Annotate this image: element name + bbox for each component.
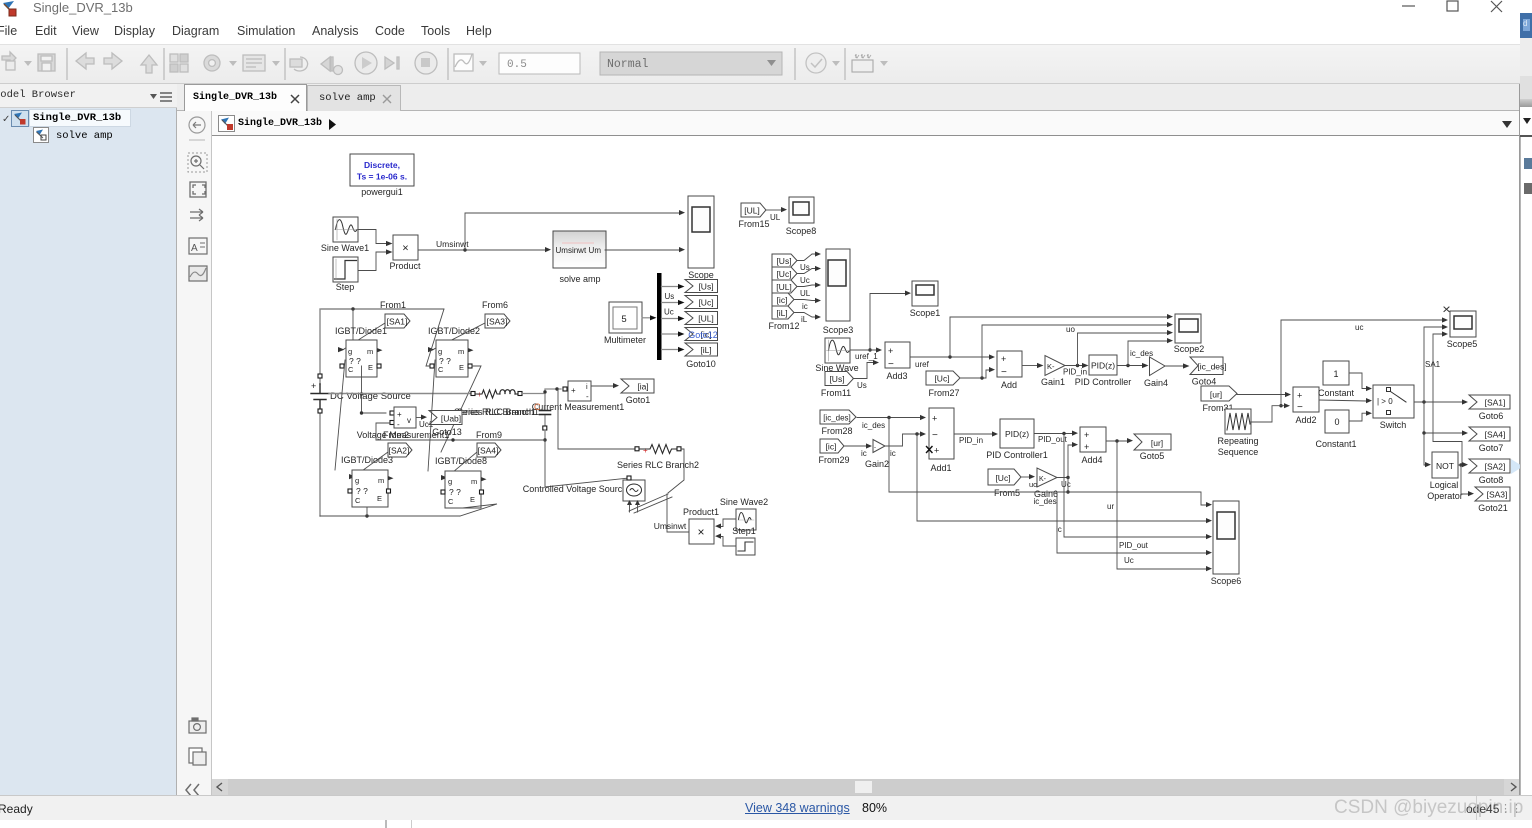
From31 label bbox=[1202, 403, 1233, 413]
svg-text:+: + bbox=[571, 386, 576, 395]
svg-text:uref_1: uref_1 bbox=[855, 352, 878, 361]
goto tag Goto12 [ic] bbox=[685, 328, 718, 341]
svg-text:Switch: Switch bbox=[1380, 420, 1407, 430]
goto tag Goto10 [iL] bbox=[685, 343, 718, 356]
powergui U_pg block bbox=[350, 154, 414, 186]
svg-text:C: C bbox=[448, 497, 454, 506]
Current Measurement1 label bbox=[532, 402, 625, 412]
svg-text:powergui1: powergui1 bbox=[361, 187, 403, 197]
svg-text:[SA3]: [SA3] bbox=[487, 317, 508, 327]
Scope8 label bbox=[786, 226, 817, 236]
wire Add2 to Switch in2 bbox=[1319, 398, 1372, 403]
svg-text:-: - bbox=[586, 392, 589, 401]
Series RLC Branch2 label bbox=[617, 460, 699, 470]
svg-text:Series RLC Branch2: Series RLC Branch2 bbox=[617, 460, 699, 470]
Gain1 label bbox=[1041, 377, 1065, 387]
From9 label bbox=[476, 430, 502, 440]
svg-text:uo: uo bbox=[1029, 480, 1037, 489]
From15 label bbox=[738, 219, 769, 229]
wire IGBT1 collector diagonal crossing bbox=[335, 360, 345, 470]
wire NOT out to Goto8 bbox=[1458, 462, 1468, 467]
svg-text:Us: Us bbox=[857, 381, 867, 390]
wire Product to solve amp, node Umsinwt bbox=[418, 239, 551, 252]
Gain6 label bbox=[1033, 489, 1058, 506]
wire Add4 branch down to Scope6 in5, net Uc bbox=[1117, 441, 1212, 571]
svg-text:Scope6: Scope6 bbox=[1211, 576, 1242, 586]
svg-text:IGBT/Diode8: IGBT/Diode8 bbox=[435, 456, 487, 466]
controller PID Controller1 bbox=[1000, 419, 1034, 448]
svg-text:From12: From12 bbox=[768, 321, 799, 331]
source Sine Wave2 bbox=[736, 509, 756, 530]
svg-text:[ic_des]: [ic_des] bbox=[1197, 362, 1226, 372]
battery DC Voltage Source V1 bbox=[311, 381, 329, 409]
wire mux out 5, net iL bbox=[662, 347, 685, 352]
svg-text:+: + bbox=[311, 381, 316, 391]
sum Add bbox=[997, 351, 1022, 378]
wire Gain6 branch down to long ic_des line bbox=[1066, 478, 1069, 494]
controller PID Controller bbox=[1089, 355, 1117, 375]
resistor inductor Series RLC Branch1 bbox=[471, 390, 522, 399]
Goto7 label bbox=[1479, 443, 1504, 453]
goto tag Goto4 [ic_des] bbox=[1190, 357, 1227, 375]
Step1 label bbox=[732, 526, 756, 536]
svg-text:From11: From11 bbox=[821, 388, 851, 398]
Sine Wave1 label bbox=[321, 243, 369, 253]
svg-text:+: + bbox=[1297, 391, 1302, 401]
svg-text:Uc: Uc bbox=[664, 308, 674, 317]
Goto1 label bbox=[626, 395, 651, 405]
from tag From5 [Uc] bbox=[988, 469, 1021, 485]
from tag From27 [Uc] bbox=[926, 371, 960, 385]
svg-text:Normal: Normal bbox=[607, 58, 649, 71]
goto tag Goto [UL] bbox=[685, 312, 718, 325]
wire Add to Gain1 bbox=[1022, 363, 1044, 368]
wire Repeating Sequence to Add2 minus bbox=[1250, 403, 1290, 422]
svg-text:Gain2: Gain2 bbox=[865, 459, 889, 469]
svg-text:[UL]: [UL] bbox=[744, 206, 760, 216]
svg-text:NOT: NOT bbox=[1436, 461, 1454, 471]
svg-text:−: − bbox=[1001, 367, 1007, 378]
svg-text:Goto10: Goto10 bbox=[686, 359, 716, 369]
svg-text:From27: From27 bbox=[928, 388, 959, 398]
svg-text:PID Controller: PID Controller bbox=[1075, 377, 1132, 387]
Controlled Voltage Source label bbox=[523, 484, 628, 494]
svg-text:g: g bbox=[355, 476, 359, 485]
Scope3 label bbox=[823, 325, 854, 335]
goto tag Goto5 [ur] bbox=[1134, 434, 1171, 450]
wire Switch out to Goto6, node SA1 bbox=[1414, 399, 1468, 404]
svg-text:Sine Wave1: Sine Wave1 bbox=[321, 243, 369, 253]
wire Constant to Switch in1 bbox=[1349, 373, 1372, 391]
wire PID Controller to Gain4 bbox=[1117, 363, 1149, 368]
goto tag Goto6 [SA1] bbox=[1469, 395, 1510, 409]
subsystem solve amp bbox=[553, 231, 606, 268]
capacitor C filter bbox=[540, 394, 551, 442]
From27 label bbox=[928, 388, 959, 398]
transistor IGBT/Diode1 bbox=[340, 340, 383, 377]
wire junction to Scope input 1 bbox=[465, 210, 685, 250]
Voltage Measurement1 and From2 labels overlapped bbox=[357, 430, 450, 440]
Goto10 label bbox=[686, 359, 716, 369]
svg-text:1: 1 bbox=[1333, 369, 1338, 379]
svg-text:-: - bbox=[397, 420, 400, 429]
svg-text:[Uc]: [Uc] bbox=[698, 298, 713, 308]
svg-text:Add1: Add1 bbox=[930, 463, 951, 473]
transistor IGBT/Diode3 bbox=[348, 470, 394, 507]
svg-text:K-: K- bbox=[1047, 362, 1055, 371]
svg-text:[ic_des]: [ic_des] bbox=[823, 414, 851, 423]
sum Add1 bbox=[927, 408, 955, 459]
wire junction up to Scope2 in4, net ic_des bbox=[1128, 338, 1173, 366]
svg-text:? ?: ? ? bbox=[349, 356, 361, 366]
wire RLC1 to Current Measurement1 bbox=[523, 387, 562, 393]
PID Controller label bbox=[1075, 377, 1132, 387]
svg-text:m: m bbox=[367, 347, 373, 356]
Add3 label bbox=[886, 371, 907, 381]
mux demux bar bbox=[657, 273, 662, 360]
wire From9 rail down to CVS bbox=[545, 440, 629, 487]
svg-text:Uc: Uc bbox=[800, 276, 810, 285]
wire mux out 3, net UL bbox=[662, 316, 685, 321]
svg-text:C: C bbox=[438, 365, 444, 374]
svg-text:Scope: Scope bbox=[688, 270, 714, 280]
wire Gain1 to PID Controller, net PID_in bbox=[1063, 363, 1089, 377]
svg-text:[SA2]: [SA2] bbox=[1485, 462, 1506, 472]
svg-text:From2: From2 bbox=[383, 430, 409, 440]
gain Gain2 bbox=[873, 440, 885, 453]
goto tag Goto7 [SA4] bbox=[1469, 427, 1510, 441]
solve amp label bbox=[559, 274, 600, 284]
wire Add1 branch down to Scope6 in2, net ur bbox=[917, 434, 1212, 523]
svg-text:Ts = 1e-06 s.: Ts = 1e-06 s. bbox=[357, 172, 407, 182]
wire Gain6 to Add4 in2, net Uc bbox=[1057, 442, 1078, 489]
wire IGBT3 emitter to bottom rail bbox=[366, 507, 368, 516]
svg-text:0.5: 0.5 bbox=[507, 59, 527, 71]
wire mux out 2, net Uc bbox=[662, 300, 685, 317]
wires From12 tags to Scope3, nets Us Uc UL ic iL bbox=[794, 251, 821, 324]
wire Add3 to Add, net uref bbox=[910, 354, 995, 369]
goto tag Goto13 [Uab] bbox=[429, 411, 462, 425]
from tag From29 [ic] bbox=[820, 439, 844, 453]
wire bottom rail bbox=[320, 514, 460, 517]
wire bottom rail diagonal to IGBT8 emitter bbox=[460, 504, 497, 516]
svg-text:ic_des: ic_des bbox=[862, 421, 885, 430]
constant Constant1 value 0 bbox=[1325, 410, 1349, 433]
svg-text:UL: UL bbox=[800, 289, 811, 298]
wire top rail to VM plus bbox=[352, 309, 354, 366]
svg-text:[SA1]: [SA1] bbox=[387, 317, 408, 327]
svg-text:PID_out: PID_out bbox=[1119, 541, 1149, 550]
scope Scope6 bbox=[1213, 501, 1239, 574]
switch Switch bbox=[1373, 385, 1414, 418]
from tag From31 [ur] bbox=[1201, 386, 1237, 401]
svg-text:Constant: Constant bbox=[1318, 388, 1355, 398]
wire SA1 down to Goto7 branch bbox=[1422, 402, 1468, 436]
svg-text:[SA1]: [SA1] bbox=[1485, 398, 1506, 408]
Goto21 label bbox=[1478, 503, 1508, 513]
svg-text:[Uc]: [Uc] bbox=[934, 374, 949, 384]
svg-text:Add2: Add2 bbox=[1295, 415, 1316, 425]
wire Multimeter to Mux bbox=[642, 315, 657, 320]
left model browser panel bbox=[0, 108, 177, 795]
Constant1 label bbox=[1315, 439, 1356, 449]
svg-text:E: E bbox=[368, 363, 373, 372]
wire Sine Wave junction to Scope1 bbox=[868, 291, 911, 352]
wire Sine Wave to Add3, net uref_1 bbox=[850, 347, 882, 361]
wire mux out 1, net Us bbox=[662, 284, 685, 301]
svg-text:[Uab]: [Uab] bbox=[441, 414, 461, 424]
svg-text:−: − bbox=[888, 359, 894, 370]
svg-text:Add: Add bbox=[1001, 380, 1017, 390]
svg-text:m: m bbox=[378, 476, 384, 485]
wire uref junction up to Scope2 in1 bbox=[950, 314, 1173, 357]
svg-text:E: E bbox=[377, 494, 382, 503]
status bar bbox=[0, 795, 1532, 820]
Switch label bbox=[1380, 420, 1407, 430]
wire VM1 to Goto13 bbox=[416, 415, 434, 430]
sum Add2 bbox=[1293, 387, 1319, 413]
powergui1 label bbox=[361, 187, 403, 197]
goto tag Goto1 [ia] bbox=[621, 379, 654, 393]
scope Scope3 bbox=[826, 249, 850, 321]
wire PID Controller1 to Add4, net PID_out bbox=[1034, 431, 1078, 445]
multiplier Product bbox=[393, 235, 418, 260]
svg-text:? ?: ? ? bbox=[356, 486, 368, 496]
svg-text:Sine Wave2: Sine Wave2 bbox=[720, 497, 768, 507]
svg-text:E: E bbox=[470, 495, 475, 504]
wire Add1 to PID Controller1, net PID_in bbox=[954, 431, 998, 445]
from tag From12 [UL] bbox=[772, 280, 797, 293]
svg-text:[UL]: [UL] bbox=[776, 282, 792, 292]
source Sine Wave1 bbox=[333, 217, 358, 242]
svg-text:g: g bbox=[348, 347, 352, 356]
svg-text:[ur]: [ur] bbox=[1210, 390, 1222, 400]
source CVS Controlled Voltage Source bbox=[623, 476, 645, 512]
sum Add3 bbox=[885, 342, 910, 370]
From1 label bbox=[380, 300, 406, 310]
transistor IGBT/Diode2 bbox=[430, 340, 474, 377]
wire uc long to Scope5 in1 bbox=[1279, 317, 1448, 407]
svg-text:+: + bbox=[1084, 430, 1089, 440]
wire mux out 4, net ic bbox=[662, 331, 685, 336]
svg-text:+: + bbox=[932, 414, 937, 424]
svg-text:Controlled Voltage Source: Controlled Voltage Source bbox=[523, 484, 628, 494]
Step label bbox=[336, 282, 355, 292]
source Sine Wave bbox=[825, 338, 850, 363]
wire IGBT1 emitter down through rail to VM plus bbox=[360, 366, 386, 415]
From29 label bbox=[818, 455, 849, 465]
from tag From1 [SA1] bbox=[385, 314, 410, 328]
svg-text:E: E bbox=[459, 363, 464, 372]
gain Gain6 bbox=[1037, 468, 1057, 487]
svg-text:m: m bbox=[471, 477, 477, 486]
svg-text:C: C bbox=[355, 496, 361, 505]
svg-text:? ?: ? ? bbox=[449, 487, 461, 497]
wire From31 to Add2 plus bbox=[1237, 392, 1291, 397]
wire Gain4 to Goto4 bbox=[1165, 363, 1190, 368]
svg-text:Sequence: Sequence bbox=[1218, 447, 1259, 457]
wire IGBT8 collector diagonal crossing bbox=[428, 360, 435, 471]
svg-text:From5: From5 bbox=[994, 488, 1020, 498]
svg-text:[Us]: [Us] bbox=[829, 374, 844, 384]
Sine Wave label bbox=[815, 363, 858, 373]
Add4 label bbox=[1081, 455, 1102, 465]
svg-text:[ic]: [ic] bbox=[826, 442, 837, 452]
wire Add4 to Goto5 bbox=[1106, 438, 1133, 443]
bottom scrollbar bbox=[212, 779, 1520, 795]
wire From27 to Add minus bbox=[960, 367, 995, 380]
svg-text:Step: Step bbox=[336, 282, 355, 292]
svg-text:uc: uc bbox=[1355, 323, 1363, 332]
svg-text:A: A bbox=[191, 243, 198, 254]
DC Voltage Source label bbox=[330, 391, 411, 402]
watermark arrow bbox=[1511, 459, 1523, 474]
svg-text:C: C bbox=[348, 365, 354, 374]
svg-text:PID(z): PID(z) bbox=[1005, 429, 1029, 439]
svg-text:[Us]: [Us] bbox=[776, 256, 791, 266]
svg-text:ur: ur bbox=[1107, 502, 1114, 511]
source Step bbox=[333, 257, 358, 282]
wire top rail diagonal to IGBT2 collector bbox=[426, 309, 444, 366]
gain Gain4 bbox=[1150, 357, 1166, 376]
svg-text:[Us]: [Us] bbox=[698, 282, 713, 292]
from tag SA2 bbox=[388, 443, 412, 457]
Goto6 label bbox=[1479, 411, 1504, 421]
from tag From28 [ic_des] bbox=[820, 410, 856, 424]
PID Controller1 label bbox=[986, 450, 1048, 460]
svg-text:m: m bbox=[458, 347, 464, 356]
svg-text:Us: Us bbox=[800, 263, 810, 272]
svg-text:Goto6: Goto6 bbox=[1479, 411, 1504, 421]
from tag From15 [UL] bbox=[741, 203, 766, 217]
svg-text:PID_in: PID_in bbox=[1063, 368, 1087, 377]
svg-text:Umsinwt: Umsinwt bbox=[556, 246, 587, 255]
Gain2 label bbox=[865, 459, 889, 469]
svg-text:Series RLC Branch1: Series RLC Branch1 bbox=[457, 407, 539, 417]
Series RLC Branch1 label overlapped double print bbox=[454, 407, 539, 417]
svg-text:Goto4: Goto4 bbox=[1192, 377, 1217, 387]
IGBT/Diode1 label bbox=[335, 326, 387, 336]
svg-text:[iL]: [iL] bbox=[776, 308, 787, 318]
wire Gain2 to Add1 in3, net ic bbox=[885, 431, 926, 458]
wire ic_des line branch to Scope6 in4, net PID_out bbox=[1057, 492, 1212, 555]
svg-text:UL: UL bbox=[770, 213, 781, 222]
sum Add4 bbox=[1080, 427, 1106, 452]
svg-text:| > 0: | > 0 bbox=[1377, 397, 1393, 406]
Logical Operator label bbox=[1427, 480, 1463, 501]
node From9 rail bbox=[376, 438, 545, 441]
svg-text:Add3: Add3 bbox=[886, 371, 907, 381]
svg-text:Scope2: Scope2 bbox=[1174, 344, 1205, 354]
From12 label bbox=[768, 321, 799, 331]
breadcrumb bar bbox=[212, 111, 1520, 136]
wire From1 to IGBT1 gate bbox=[338, 323, 385, 352]
svg-text:Goto1: Goto1 bbox=[626, 395, 651, 405]
svg-text:5: 5 bbox=[621, 314, 626, 325]
svg-text:ic_des: ic_des bbox=[1033, 497, 1056, 506]
wire junction up to Scope2 in2 bbox=[982, 322, 1173, 378]
Add2 label bbox=[1295, 415, 1316, 425]
svg-text:Gain1: Gain1 bbox=[1041, 377, 1065, 387]
Scope6 label bbox=[1211, 576, 1242, 586]
wire VM1 minus down to From9 rail bbox=[376, 423, 390, 440]
from tag From12 [iL] bbox=[772, 306, 794, 319]
Add1 label bbox=[930, 463, 951, 473]
wire Constant1 to Switch in3 bbox=[1349, 411, 1372, 421]
Constant label bbox=[1318, 388, 1355, 398]
svg-text:Goto21: Goto21 bbox=[1478, 503, 1508, 513]
svg-text:Scope5: Scope5 bbox=[1447, 339, 1478, 349]
wire CM1 to Goto1 bbox=[591, 383, 619, 388]
tab strip + model browser header bbox=[0, 84, 177, 108]
wire Step1 to Product1 bbox=[721, 537, 736, 547]
svg-text:[Uc]: [Uc] bbox=[995, 473, 1010, 483]
svg-text:PID_in: PID_in bbox=[959, 436, 983, 445]
svg-text:[SA4]: [SA4] bbox=[478, 446, 499, 456]
wire Step to Product bbox=[358, 249, 393, 270]
wire From11 to Add3 minus, net Us bbox=[853, 360, 879, 390]
svg-text:+: + bbox=[1084, 442, 1089, 452]
svg-text:From9: From9 bbox=[476, 430, 502, 440]
scope Scope1 bbox=[912, 281, 938, 306]
from tag From12 [ic] bbox=[772, 293, 794, 306]
svg-text:IGBT/Diode3: IGBT/Diode3 bbox=[341, 455, 393, 465]
scope Scope2 bbox=[1175, 314, 1201, 343]
svg-text:Goto12: Goto12 bbox=[688, 330, 718, 340]
svg-text:−: − bbox=[932, 430, 938, 441]
node top DC rail bbox=[320, 307, 444, 310]
transistor IGBT/Diode8 bbox=[441, 471, 487, 508]
voltmeter Voltage Measurement1 bbox=[390, 407, 416, 429]
Add label bbox=[1001, 380, 1017, 390]
wire From15 to Scope8, net UL bbox=[766, 207, 787, 222]
svg-text:PID Controller1: PID Controller1 bbox=[986, 450, 1048, 460]
resistor Series RLC Branch2 bbox=[635, 445, 681, 456]
Goto8 label bbox=[1479, 475, 1504, 485]
menu bar bbox=[0, 19, 1520, 44]
svg-text:Discrete,: Discrete, bbox=[364, 160, 400, 170]
svg-text:solve amp: solve amp bbox=[559, 274, 600, 284]
svg-text:×: × bbox=[402, 243, 408, 255]
multiplier Product1 mirrored bbox=[689, 519, 721, 544]
from tag From12 [Us] bbox=[772, 254, 797, 267]
svg-text:iL: iL bbox=[801, 315, 808, 324]
svg-text:ic: ic bbox=[861, 449, 867, 458]
wire uo junction up to Scope2 in3 bbox=[1066, 325, 1173, 366]
from tag From6 [SA3] bbox=[485, 314, 510, 328]
svg-text:PID_out: PID_out bbox=[1038, 435, 1068, 444]
svg-text:0: 0 bbox=[1334, 417, 1339, 427]
constant Constant value 1 bbox=[1323, 361, 1349, 385]
Scope label bbox=[688, 270, 714, 280]
Sine Wave2 label bbox=[720, 497, 768, 507]
svg-text:Goto7: Goto7 bbox=[1479, 443, 1504, 453]
goto tag Goto21 [SA3] bbox=[1475, 487, 1510, 501]
from tag From11 [Us] bbox=[825, 372, 854, 386]
svg-text:Goto8: Goto8 bbox=[1479, 475, 1504, 485]
wire From29 to Gain2, net ic bbox=[844, 443, 872, 458]
svg-text:Product: Product bbox=[389, 261, 421, 271]
ammeter Current Measurement1 bbox=[563, 381, 591, 401]
svg-text:ic: ic bbox=[890, 449, 896, 458]
svg-text:[ic]: [ic] bbox=[777, 295, 788, 305]
svg-text:+: + bbox=[643, 446, 648, 455]
svg-text:ic: ic bbox=[802, 302, 808, 311]
svg-text:From6: From6 bbox=[482, 300, 508, 310]
palette strip bbox=[177, 111, 212, 795]
From28 label bbox=[821, 426, 852, 436]
wire long feedback to Scope6 in1 bbox=[889, 418, 1212, 508]
